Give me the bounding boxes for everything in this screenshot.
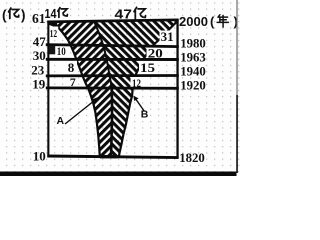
svg-text:B: B: [141, 109, 149, 121]
white label box 8 (row3): [62, 61, 77, 74]
svg-text:12: 12: [132, 78, 141, 90]
svg-text:15: 15: [140, 60, 156, 75]
svg-text:7: 7: [70, 75, 76, 89]
亿 glyph of (亿): [9, 8, 19, 18]
white label box 31 (right,row1): [160, 31, 176, 43]
svg-text:10: 10: [33, 149, 46, 164]
亿 of 14亿: [58, 8, 68, 18]
svg-text:19: 19: [32, 77, 46, 92]
region B (hatched \): [94, 21, 178, 157]
region A (hatched /): [50, 21, 112, 157]
bottom line 1820: [47, 156, 178, 158]
curve L (left boundary): [50, 22, 100, 157]
horizontal line 2000 (top): [47, 20, 178, 22]
white label box 15 (row3): [139, 60, 158, 73]
corner blob top-left: [48, 22, 59, 29]
svg-text:A: A: [57, 115, 65, 127]
svg-text:1940: 1940: [180, 65, 206, 79]
horizontal line 1980: [46, 45, 179, 47]
arrow B: [135, 98, 145, 112]
white label box 10 (left, row2): [49, 45, 70, 56]
svg-text:): ): [21, 8, 26, 23]
funnel stem foot below bottom line: [100, 155, 118, 158]
bottom scan band: [0, 172, 237, 177]
svg-text:(: (: [2, 8, 7, 23]
svg-text:20: 20: [148, 45, 163, 60]
svg-text:(: (: [210, 14, 215, 29]
black blob left of 10: [49, 46, 55, 55]
white label box 7 (row4): [66, 77, 77, 87]
svg-text:1980: 1980: [180, 36, 206, 50]
left box edge: [47, 21, 49, 158]
svg-text:2000: 2000: [179, 14, 208, 29]
svg-text:10: 10: [57, 44, 66, 58]
svg-text:30: 30: [33, 48, 46, 63]
svg-text:8: 8: [68, 60, 75, 75]
svg-text:23: 23: [31, 62, 45, 77]
white label box 12 (left, row1): [49, 27, 59, 39]
亿 of 47亿: [134, 7, 146, 19]
white label box 12 (right,row4): [131, 77, 146, 88]
年 glyph: [217, 15, 228, 27]
horizontal line 1920: [46, 87, 179, 90]
arrow A: [65, 99, 97, 125]
svg-text:31: 31: [161, 29, 174, 44]
svg-text:1820: 1820: [179, 151, 205, 165]
right scan border line: [236, 0, 237, 95]
svg-text:1963: 1963: [180, 51, 206, 65]
svg-text:47: 47: [115, 6, 133, 21]
horizontal line 1963: [46, 58, 179, 61]
svg-text:14: 14: [45, 7, 57, 21]
svg-text:12: 12: [50, 28, 58, 40]
right box edge: [176, 19, 178, 158]
white label box 20 (row2): [147, 45, 168, 58]
curve R (right boundary): [119, 21, 178, 157]
svg-text:47: 47: [33, 34, 47, 49]
horizontal line 1940: [46, 74, 179, 77]
divider spine (lower): [94, 21, 112, 88]
svg-text:1920: 1920: [180, 78, 206, 92]
